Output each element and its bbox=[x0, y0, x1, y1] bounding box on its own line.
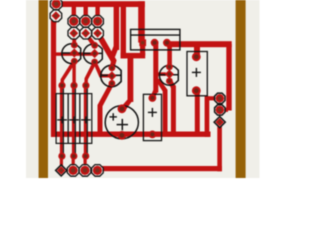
wire stub to pad row1 col3 bbox=[95, 4, 99, 21]
wire T2 bottom to rect3 pad diagonal bbox=[84, 61, 96, 85]
wire pad B vertical left rail bbox=[51, 18, 56, 137]
plus mark C1 large bbox=[117, 119, 128, 130]
right stack pad 1 bbox=[215, 93, 225, 103]
wire T4 bottom down to H bbox=[167, 80, 176, 135]
wire T1 bottom to rect2 pad bbox=[72, 61, 75, 86]
transistor Q4 middle pad (diamond) bbox=[165, 70, 174, 79]
wire drop to relay pad1 bbox=[138, 1, 145, 42]
transistor Q1 bottom pad bbox=[71, 58, 78, 65]
transistor Q2 middle pad (diamond) bbox=[90, 49, 99, 58]
transistor Q3 outline bbox=[101, 65, 121, 86]
transistor Q4 bottom pad bbox=[166, 78, 173, 85]
pad A top-left connector bbox=[50, 0, 62, 10]
wire V1 right rect bottom to H bbox=[195, 91, 200, 134]
wire bottom long trace bbox=[97, 166, 221, 171]
capacitor C1 bottom pad bbox=[118, 131, 127, 140]
resistor R3 bottom pad bbox=[82, 153, 89, 160]
pad row1 col2 bbox=[80, 15, 92, 27]
wire T3 bottom diagonal to vertical bbox=[98, 82, 114, 134]
wire R stub to stack pad2 bbox=[222, 108, 228, 112]
wire right rect top feed bbox=[194, 45, 200, 57]
capacitor C1 circle bbox=[105, 106, 138, 139]
wire Vb jog right to cap feed bbox=[121, 53, 146, 59]
transistor Q1 middle pad (diamond) bbox=[70, 48, 79, 57]
capacitor C3 bottom pad bbox=[192, 86, 201, 95]
plus mark R3 bbox=[81, 116, 91, 123]
capacitor C3 box bbox=[187, 52, 207, 96]
wire row2 col1 stub to T1 top bbox=[72, 33, 76, 46]
bottom connector pad 2 bbox=[67, 165, 79, 177]
transistor Q4 top pad bbox=[166, 63, 173, 70]
transistor Q4 outline bbox=[159, 65, 178, 85]
wire Va join to diagonal bbox=[111, 46, 120, 57]
wire V2 stack pad1 stub bbox=[206, 96, 215, 100]
lead line R3 bbox=[87, 87, 88, 156]
capacitor C2 top pad bbox=[149, 94, 157, 102]
wire vertical Va from bus bbox=[114, 4, 120, 50]
wire vertical Vb from bus bbox=[121, 4, 126, 58]
transistor Q2 outline bbox=[83, 44, 102, 64]
wire stub to pad row1 col2 bbox=[84, 4, 88, 21]
capacitor C2 box bbox=[143, 94, 161, 140]
resistor R1 top pad bbox=[58, 82, 65, 89]
page background bbox=[0, 0, 286, 178]
wire blob1 to bottom pad1 bbox=[60, 156, 63, 170]
resistor R2 top pad bbox=[70, 82, 77, 89]
right stack pad 3 (diamond) bbox=[214, 117, 225, 128]
wire blob2 to bottom pad2 bbox=[72, 156, 75, 170]
plus mark R1 bbox=[57, 116, 67, 123]
wire cap top feed knee bbox=[120, 100, 133, 112]
pad row2 col1 (diamond) bbox=[68, 27, 80, 39]
wire relay pad2 down bbox=[153, 43, 158, 93]
transistor Q3 bottom pad bbox=[109, 80, 116, 87]
pad B connector (diamond) bbox=[50, 10, 62, 22]
wire relay pad1 down feed bbox=[140, 43, 145, 56]
wire blob3 to bottom pad3 bbox=[84, 156, 87, 170]
wire rect3 through trace bbox=[84, 85, 87, 156]
resistor block R2 outline bbox=[68, 94, 80, 144]
capacitor C3 top pad bbox=[192, 52, 201, 61]
transistor Q3 middle pad (diamond) bbox=[107, 71, 116, 80]
wire pad B neck bbox=[51, 16, 58, 24]
wire rect1 through trace bbox=[60, 85, 63, 156]
wire branch diag to H left of T4 bbox=[156, 79, 168, 135]
relay component box bbox=[131, 29, 180, 50]
wire T2 bottom to T3 middle bbox=[93, 62, 110, 78]
wire row2 col3 diagonal to T3 top bbox=[95, 33, 117, 69]
board background bbox=[26, 0, 260, 178]
resistor R1 bottom pad bbox=[58, 153, 65, 160]
wire T1 bottom to rect1 pad diagonal bbox=[60, 60, 75, 85]
transistor Q3 top pad bbox=[109, 65, 116, 72]
bottom connector pad 3 bbox=[79, 165, 91, 177]
pad row2 col2 (diamond) bbox=[80, 27, 92, 39]
wire T4 top feed bbox=[167, 45, 172, 67]
resistor block R3 outline bbox=[80, 94, 92, 144]
transistor Q1 outline bbox=[62, 44, 81, 64]
right brown frame bar bbox=[236, 0, 246, 178]
lead line R1 bbox=[63, 87, 64, 156]
lead line R2 bbox=[75, 87, 76, 156]
wire top bus horizontal bbox=[53, 1, 145, 7]
wire cap top feed vertical bbox=[128, 55, 134, 102]
wire relay pad2 knee to mid rect pad bbox=[151, 90, 159, 98]
wire T4 middle stub bbox=[157, 72, 166, 76]
bottom connector pad 1 (diamond) bbox=[56, 165, 67, 176]
wire T1/T2 middle bridge bbox=[53, 52, 92, 55]
wire V2 vertical to H end bbox=[205, 96, 210, 137]
right stack pad 2 bbox=[215, 105, 225, 115]
relay pad 2 bbox=[151, 39, 159, 47]
wire rect2 through trace bbox=[72, 85, 75, 156]
bottom connector pad 4 bbox=[92, 165, 104, 177]
relay pad 3 bbox=[163, 39, 171, 47]
capacitor C2 bottom pad bbox=[149, 131, 157, 139]
resistor R3 top pad bbox=[82, 82, 89, 89]
transistor Q2 top pad bbox=[91, 42, 98, 49]
wire row2 col2 diagonal to T2 top bbox=[84, 33, 97, 47]
pad row1 col1 bbox=[68, 15, 80, 27]
wire power trace horizontal bbox=[167, 41, 232, 47]
capacitor C1 top pad bbox=[118, 104, 127, 113]
plus mark C2 bbox=[148, 108, 157, 117]
plus mark C3 bbox=[192, 68, 201, 77]
wire R vertical right bbox=[226, 44, 231, 111]
wire stub to pad row1 col1 bbox=[72, 4, 76, 21]
wire H horizontal mid-low bbox=[51, 132, 211, 137]
transistor Q2 bottom pad bbox=[91, 59, 98, 66]
wire right stack pad3 down bbox=[217, 122, 222, 171]
resistor R2 bottom pad bbox=[70, 153, 77, 160]
pad row1 col3 bbox=[92, 15, 104, 27]
transistor Q1 top pad bbox=[71, 42, 78, 49]
resistor block R1 outline bbox=[56, 94, 68, 144]
pad row2 col3 (diamond) bbox=[92, 27, 104, 39]
plus mark C1 small bbox=[110, 113, 117, 120]
plus mark R2 bbox=[69, 116, 79, 123]
left brown frame bar bbox=[39, 0, 48, 178]
relay pad 1 (diamond) bbox=[139, 39, 146, 46]
